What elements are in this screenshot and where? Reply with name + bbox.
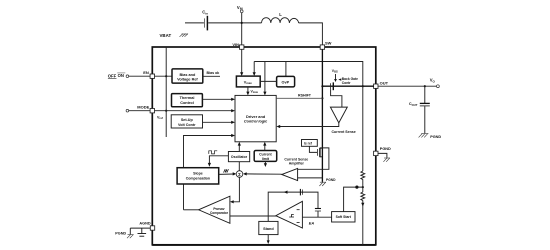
wire (between resistors) bbox=[362, 181, 364, 193]
svg-text:Control logic: Control logic bbox=[244, 120, 268, 124]
svg-text:MODE: MODE bbox=[137, 104, 149, 109]
wire (Vmax to driver) bbox=[247, 87, 249, 93]
svg-text:Bias and: Bias and bbox=[179, 73, 196, 77]
node (SW-PMOS junction) bbox=[321, 85, 323, 87]
svg-text:Cin: Cin bbox=[202, 10, 208, 16]
wire (current limit up to driver) bbox=[264, 145, 266, 151]
ramp glyph bbox=[223, 169, 228, 173]
capacitor COUT bbox=[420, 86, 430, 133]
svg-text:OFF: OFF bbox=[108, 73, 117, 78]
svg-text:Stand: Stand bbox=[263, 227, 274, 231]
resistor R1 bbox=[361, 171, 365, 181]
wire (Vmax to OvP link) bbox=[260, 80, 277, 82]
wire (summing down to pwrsav) bbox=[233, 177, 239, 202]
node (EN bus junction) bbox=[165, 75, 167, 77]
svg-text:Compensation: Compensation bbox=[186, 177, 210, 181]
wire (gate driver to driver logic) bbox=[280, 123, 339, 127]
svg-text:Current Sense: Current Sense bbox=[332, 130, 356, 134]
ground (PGND earth) bbox=[383, 158, 390, 162]
wire (AGND pin to grounds) bbox=[130, 227, 150, 229]
wire (rail tap to Vmax) bbox=[253, 62, 255, 73]
svg-text:EN: EN bbox=[143, 70, 149, 75]
svg-text:Σ: Σ bbox=[238, 172, 241, 177]
wire (OUT to Vout terminal) bbox=[378, 85, 437, 87]
block Is ref bbox=[302, 140, 318, 147]
capacitor comp series bbox=[300, 189, 302, 196]
svg-text:Soft Start: Soft Start bbox=[336, 215, 352, 219]
wire (CSA input from drain) bbox=[298, 148, 329, 169]
svg-text:Set-Up: Set-Up bbox=[181, 118, 194, 122]
wire (VBG tap down to PMOS bulk) bbox=[335, 74, 337, 79]
node summing junction bbox=[236, 171, 243, 178]
svg-text:PGND: PGND bbox=[115, 231, 126, 235]
block Stand bbox=[259, 221, 278, 234]
wire (rail tap to OvP) bbox=[285, 62, 287, 77]
wire (EN pin to Bias box) bbox=[155, 75, 173, 77]
block Vmax bbox=[236, 76, 260, 87]
svg-text:Contr: Contr bbox=[342, 81, 352, 85]
wire (EN terminal to pin) bbox=[129, 75, 150, 77]
wire (NMOS source down) bbox=[321, 148, 323, 182]
block Current limit bbox=[254, 151, 277, 162]
svg-text:OUT: OUT bbox=[380, 80, 389, 85]
wire (Set-Up to driver) bbox=[203, 121, 233, 123]
ground (Cout earth) bbox=[419, 133, 429, 137]
node (RSHIFT end junction) bbox=[321, 97, 323, 99]
block Soft Start bbox=[332, 212, 355, 222]
wire (divider lower to bottom) bbox=[362, 202, 364, 245]
svg-text:VBAT: VBAT bbox=[160, 33, 172, 38]
svg-text:VO: VO bbox=[430, 78, 436, 84]
resistor R2 bbox=[361, 192, 365, 202]
ground (PGND earth bottom-left) bbox=[129, 228, 131, 234]
wire (Is ref to NMOS gate) bbox=[309, 146, 317, 152]
wire (SW line vertical) bbox=[321, 49, 323, 148]
svg-text:Driver and: Driver and bbox=[246, 114, 266, 119]
transistor PMOS rectifier bbox=[331, 82, 334, 90]
wire (PMOS gate link to gate driver) bbox=[331, 89, 342, 107]
wire (oscillator down to summing) bbox=[238, 162, 240, 171]
pin VIN bbox=[240, 45, 244, 49]
block Driver and Control logic bbox=[235, 95, 276, 141]
svg-text:VBG: VBG bbox=[332, 69, 338, 74]
svg-text:Comparator: Comparator bbox=[210, 211, 229, 215]
svg-text:Amplifier: Amplifier bbox=[289, 162, 305, 166]
svg-text:RSHIFT: RSHIFT bbox=[298, 94, 312, 98]
svg-text:Vmax: Vmax bbox=[251, 90, 259, 95]
svg-text:ON: ON bbox=[118, 73, 124, 78]
node (rail-out junction) bbox=[362, 85, 364, 87]
arrowheads into driver left bbox=[231, 98, 235, 101]
svg-text:OvP: OvP bbox=[282, 80, 290, 84]
terminal VO bbox=[437, 85, 440, 88]
svg-text:PGND: PGND bbox=[326, 178, 336, 182]
wire (battery left lead) bbox=[185, 22, 204, 24]
svg-text:Control: Control bbox=[180, 101, 194, 105]
block Start-Up Volt Contr bbox=[171, 115, 202, 128]
ground (analog gnd bars) bbox=[138, 228, 147, 236]
wire (EA input from soft start) bbox=[302, 216, 331, 218]
battery VBAT bbox=[205, 16, 208, 31]
pin PGND (right edge) bbox=[374, 151, 378, 155]
wire (oscillator up to driver) bbox=[238, 145, 240, 152]
wire (Vmax rail horizontal) bbox=[254, 62, 363, 87]
wire (rail to driver second tap) bbox=[264, 62, 266, 93]
ground (top-left small earth) bbox=[180, 34, 189, 37]
svg-text:Oscillator: Oscillator bbox=[231, 155, 248, 159]
wire (compensation line) bbox=[268, 192, 318, 221]
wire (PMOS row to OUT) bbox=[322, 85, 373, 87]
wire (Thermal to driver) bbox=[202, 98, 232, 100]
wire (VIN pin down to Vmax) bbox=[241, 49, 243, 73]
wire (divider upper) bbox=[362, 86, 364, 171]
wire (FB into soft start) bbox=[344, 187, 363, 212]
svg-text:Volt Contr: Volt Contr bbox=[178, 123, 196, 127]
block Bias and Voltage Ref bbox=[172, 69, 203, 83]
svg-text:PGND: PGND bbox=[430, 135, 441, 139]
wire (EA output to pwrsav) bbox=[230, 215, 277, 217]
wire (VIN terminal down) bbox=[241, 13, 243, 45]
wire (internal bus vertical) bbox=[165, 47, 167, 137]
wire (CSA output to summing) bbox=[246, 173, 282, 175]
pin MODE bbox=[150, 109, 154, 113]
IC outline box bbox=[152, 47, 375, 245]
svg-text:Vmax: Vmax bbox=[244, 80, 253, 85]
node (MODE bus junction) bbox=[165, 110, 167, 112]
wire (pwrsav feedback up to driver) bbox=[184, 136, 233, 210]
clock waveform glyph bbox=[209, 151, 217, 154]
svg-text:PGND: PGND bbox=[380, 147, 391, 151]
svg-text:Voltage Ref: Voltage Ref bbox=[177, 78, 198, 82]
svg-text:Is ref: Is ref bbox=[304, 141, 313, 145]
svg-text:VIN: VIN bbox=[232, 42, 239, 47]
block Thermal Control bbox=[172, 94, 203, 107]
op-amp gate driver triangle bbox=[330, 107, 347, 123]
wire (stand down to gnd edge) bbox=[267, 235, 269, 241]
svg-text:SW: SW bbox=[325, 41, 332, 46]
node (FB tap dot) bbox=[362, 186, 364, 188]
terminal MODE input bbox=[126, 109, 129, 112]
node (junction VIN wire) bbox=[241, 22, 243, 24]
pin AGND (left edge) bbox=[150, 226, 154, 230]
wire (battery to inductor) bbox=[208, 22, 261, 24]
op-amp current sense amplifier bbox=[282, 168, 298, 180]
wire (oscillator to slope comp) bbox=[209, 156, 228, 164]
block OvP bbox=[277, 76, 295, 87]
ground (NMOS source earth) bbox=[319, 182, 326, 186]
svg-text:L: L bbox=[279, 12, 282, 17]
wire (pwrsav output left) bbox=[184, 209, 199, 211]
op-amp pwrsav comparator bbox=[199, 196, 230, 223]
wire (Bias ok stub) bbox=[203, 75, 220, 77]
terminal OFF/ON (EN input) bbox=[126, 75, 129, 78]
transistor NMOS switch bbox=[317, 148, 322, 157]
svg-text:limit: limit bbox=[262, 157, 270, 161]
wire (current limit down arrow) bbox=[264, 161, 266, 164]
svg-text:COUT: COUT bbox=[409, 102, 418, 107]
wire (PGND pin to earth) bbox=[378, 153, 387, 157]
svg-text:EA: EA bbox=[309, 222, 315, 226]
capacitor comp shunt bbox=[315, 209, 321, 218]
wire (CSA input from source) bbox=[298, 177, 323, 179]
pin SW bbox=[320, 45, 324, 49]
node (FB mid dot) bbox=[355, 186, 358, 189]
block Slope Compensation bbox=[177, 168, 219, 184]
block Oscillator bbox=[228, 152, 249, 162]
node (Cout junction) bbox=[424, 85, 426, 87]
svg-text:VIN: VIN bbox=[237, 5, 243, 11]
terminal VIN bbox=[240, 10, 243, 13]
svg-text:Bias ok: Bias ok bbox=[207, 71, 220, 75]
wire (inductor to SW) bbox=[299, 23, 323, 45]
svg-text:AGND: AGND bbox=[139, 221, 150, 225]
inductor L bbox=[262, 18, 299, 23]
svg-text:Vref: Vref bbox=[157, 115, 163, 120]
svg-text:Slope: Slope bbox=[193, 171, 203, 175]
op-amp error amplifier bbox=[276, 201, 303, 228]
pin EN bbox=[150, 74, 154, 78]
wire (slope comp to summing) bbox=[219, 173, 234, 175]
pin OUT bbox=[374, 84, 378, 88]
svg-text:Thermal: Thermal bbox=[180, 96, 195, 100]
wire RSHIFT bbox=[276, 97, 322, 99]
wire (MODE to driver) bbox=[155, 110, 233, 112]
wire (MODE terminal to pin) bbox=[129, 110, 150, 112]
